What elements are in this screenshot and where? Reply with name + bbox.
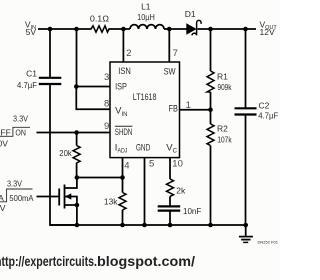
node junction dot FB divider xyxy=(208,107,213,112)
capacitor 10nF compensation xyxy=(158,206,202,225)
wire MOSFET gate lead xyxy=(37,196,59,198)
inductor L1 10uH xyxy=(130,1,164,29)
node junction dot SHDN / 20k xyxy=(74,130,79,135)
node junction dot C2 top xyxy=(243,27,248,32)
svg-text:SHDN: SHDN xyxy=(115,127,133,138)
wire C1 bottom down to ground rail xyxy=(50,85,77,225)
svg-text:3: 3 xyxy=(104,72,109,83)
wire ISP pin 3 xyxy=(76,86,110,88)
svg-text:ON: ON xyxy=(15,127,26,137)
wire from D1 to VOUT terminal xyxy=(198,28,257,30)
svg-text:L1: L1 xyxy=(141,1,151,11)
svg-text:R1: R1 xyxy=(217,72,228,82)
node junction dot GND on ground rail xyxy=(142,223,147,228)
svg-text:4.7µF: 4.7µF xyxy=(258,110,278,120)
node junction dot SW tap xyxy=(167,27,172,32)
node junction dot 10nF on ground rail xyxy=(168,223,173,228)
node junction dot ISP xyxy=(74,84,79,89)
node junction dot ISN tap xyxy=(121,27,126,32)
svg-text:12V: 12V xyxy=(260,27,275,37)
node junction dot Q1 source/body xyxy=(75,203,80,208)
resistor 20k xyxy=(59,133,80,178)
svg-text:C2: C2 xyxy=(259,101,270,111)
svg-text:0.1Ω: 0.1Ω xyxy=(90,13,110,23)
wire IADJ pin 4 stub xyxy=(122,158,124,178)
node junction dot ground rail / C2 / ground symbol xyxy=(243,223,248,228)
node junction dot 20k bottom / IADJ link / Q1 drain xyxy=(75,175,80,180)
svg-text:2k: 2k xyxy=(176,186,186,196)
svg-text:D1: D1 xyxy=(185,9,196,19)
svg-text:7: 7 xyxy=(173,48,178,59)
svg-text:FB: FB xyxy=(169,104,178,115)
capacitor C1 4.7uF xyxy=(17,29,61,90)
node junction dot source on ground rail xyxy=(75,223,80,228)
resistor 0.1 ohm sense resistor xyxy=(90,13,110,32)
svg-text:blogspot.com/: blogspot.com/ xyxy=(97,253,195,269)
wire from 0.1ohm to inductor L1 xyxy=(109,28,131,30)
wire ground rail xyxy=(50,224,246,226)
IC U1 LT1618 body xyxy=(110,62,180,158)
svg-text:10nF: 10nF xyxy=(183,206,201,216)
diode D1 schottky xyxy=(185,9,201,35)
wire GND pin 5 stub down to ground rail xyxy=(144,158,146,225)
resistor 2k compensation xyxy=(167,179,187,206)
svg-text:4.7µF: 4.7µF xyxy=(17,80,37,90)
node gate drive input step symbol 500mA xyxy=(0,179,34,213)
svg-text:9: 9 xyxy=(104,121,109,132)
svg-text:13k: 13k xyxy=(104,197,118,207)
svg-text:GND: GND xyxy=(136,143,150,154)
svg-text:C1: C1 xyxy=(26,68,37,78)
node junction dot 13k on ground rail xyxy=(120,223,125,228)
svg-text:10µH: 10µH xyxy=(137,12,155,22)
svg-text:4: 4 xyxy=(124,160,129,171)
resistor R1 909k feedback upper xyxy=(207,29,232,110)
svg-text:http://expertcircuits.: http://expertcircuits. xyxy=(0,253,97,269)
node junction dot VIN rail / ISP branch xyxy=(74,27,79,32)
wire pin 2 stub from rail down to ISN xyxy=(122,29,124,62)
svg-text:3.3V: 3.3V xyxy=(13,113,28,123)
svg-text:LT1618: LT1618 xyxy=(133,92,157,103)
wire ISP branch from rail down xyxy=(76,29,78,87)
svg-text:0mA: 0mA xyxy=(0,193,4,203)
node junction dot R1 top xyxy=(208,27,213,32)
wire VIN pin 8 with corner xyxy=(76,87,110,110)
wire Q1 source down to ground rail xyxy=(76,205,78,225)
node junction dot R2 on ground rail xyxy=(208,223,213,228)
svg-text:DN252 F01: DN252 F01 xyxy=(258,240,279,245)
svg-text:5: 5 xyxy=(149,159,154,170)
node VOUT output terminal label xyxy=(260,20,278,38)
svg-text:5V: 5V xyxy=(26,27,37,37)
capacitor C2 4.7uF output xyxy=(235,29,279,225)
node SHDN logic input step symbol OFF/ON xyxy=(0,113,30,148)
svg-text:107k: 107k xyxy=(217,134,232,144)
svg-text:10: 10 xyxy=(172,159,183,170)
svg-text:3.3V: 3.3V xyxy=(7,179,22,189)
wire SHDN pin 9 xyxy=(37,132,111,134)
node VIN input terminal label xyxy=(25,20,36,38)
node junction dot IADJ / 13k xyxy=(120,175,125,180)
wire pin 7 stub from rail down to SW xyxy=(168,29,170,62)
wire from L1 to diode D1 xyxy=(164,28,187,30)
ground symbol xyxy=(239,225,253,242)
resistor R2 107k feedback lower xyxy=(207,110,232,225)
svg-text:ISN: ISN xyxy=(118,66,131,77)
wire top rail from VIN terminal to 0.1ohm resistor xyxy=(38,28,92,30)
wire link from 20k bottom to IADJ pin 4 xyxy=(77,177,123,179)
svg-text:500mA: 500mA xyxy=(9,193,33,203)
svg-text:SW: SW xyxy=(164,66,176,77)
svg-text:909k: 909k xyxy=(218,82,233,92)
svg-text:0V: 0V xyxy=(0,138,8,148)
svg-text:OFF: OFF xyxy=(0,127,11,137)
svg-text:20k: 20k xyxy=(59,148,72,158)
transistor Q1 N-channel MOSFET xyxy=(59,178,77,209)
wire VC pin 10 stub xyxy=(169,158,171,179)
svg-text:ISP: ISP xyxy=(115,82,127,93)
svg-text:8: 8 xyxy=(104,99,109,110)
node junction dot VIN rail / C1 xyxy=(48,27,53,32)
wire FB pin 1 xyxy=(180,109,211,111)
svg-text:R2: R2 xyxy=(217,124,228,134)
svg-text:0V: 0V xyxy=(0,203,6,213)
svg-text:2: 2 xyxy=(126,48,131,59)
svg-text:1: 1 xyxy=(186,100,191,111)
resistor 13k xyxy=(104,178,126,226)
